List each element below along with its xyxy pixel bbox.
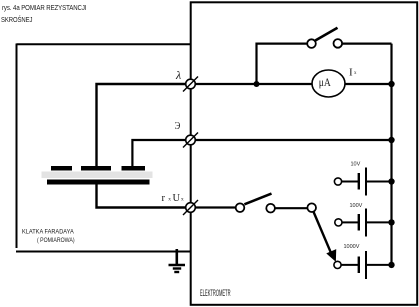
measuring electrode middle bar <box>81 166 111 171</box>
wire guard electrode to e feedthrough <box>132 140 190 166</box>
feedthrough bushing lambda <box>183 77 198 92</box>
wire rxUx feedthrough to selector contact 1 <box>191 206 241 208</box>
faraday cage left wall <box>16 44 18 249</box>
guard electrode right bar <box>122 166 146 171</box>
wire bottom electrode to rxUx feedthrough <box>97 184 191 208</box>
bypass branch wire right leg <box>338 42 392 44</box>
svg-text:10V: 10V <box>351 162 361 168</box>
feedthrough bushing rxUx <box>183 200 198 215</box>
wire between selector contacts <box>275 207 308 209</box>
svg-text:rys. 4a POMIAR REZYSTANCJI: rys. 4a POMIAR REZYSTANCJI <box>2 5 87 12</box>
svg-text:λ: λ <box>175 68 181 82</box>
main wire lambda feedthrough to right bus <box>191 83 392 85</box>
svg-text:μA: μA <box>319 76 331 89</box>
ground symbol <box>169 249 186 272</box>
guard electrode left bar <box>51 166 72 171</box>
battery B1 10V <box>334 168 391 196</box>
bypass branch wire left leg <box>257 44 312 84</box>
junction dot node at bypass left <box>254 81 260 87</box>
junction dot node at bus main wire <box>388 81 394 87</box>
sample slab <box>42 172 153 179</box>
svg-text:1000V: 1000V <box>344 244 360 250</box>
faraday cage top wall <box>17 43 191 45</box>
svg-text:( POMIAROWA): ( POMIAROWA) <box>37 238 75 245</box>
wire e feedthrough to right bus <box>191 139 392 141</box>
faraday cage bottom wall <box>16 251 191 253</box>
svg-text:Э: Э <box>175 120 181 132</box>
selector switch S2 contacts <box>236 194 316 213</box>
microammeter μA <box>312 70 345 97</box>
junction dot node at bus battery 10V <box>388 178 394 184</box>
bottom voltage electrode bar <box>47 180 150 185</box>
selector wiper arrow to 1000V <box>314 212 336 261</box>
svg-text:x: x <box>181 197 184 203</box>
electrometer enclosure box <box>191 2 418 305</box>
svg-text:SKROŚNEJ: SKROŚNEJ <box>1 14 32 24</box>
wire measuring electrode to lambda feedthrough <box>97 84 191 166</box>
svg-text:I: I <box>349 66 353 78</box>
battery B2 100V <box>335 209 392 237</box>
right vertical bus wire <box>390 44 392 265</box>
feedthrough bushing e <box>183 133 198 148</box>
svg-text:KLATKA FARADAYA: KLATKA FARADAYA <box>22 228 75 235</box>
battery B3 1000V <box>334 251 392 279</box>
svg-text:r: r <box>162 193 166 204</box>
bypass switch S1 <box>307 28 342 48</box>
svg-text:U: U <box>173 193 181 204</box>
junction dot node at bus battery 100V <box>388 219 394 225</box>
junction dot node at bus e wire <box>388 137 394 143</box>
junction dot node at bus battery 1000V <box>388 262 394 268</box>
svg-text:ELEKTROMETR: ELEKTROMETR <box>200 287 231 299</box>
svg-text:100V: 100V <box>350 203 363 209</box>
svg-text:x: x <box>168 197 171 203</box>
